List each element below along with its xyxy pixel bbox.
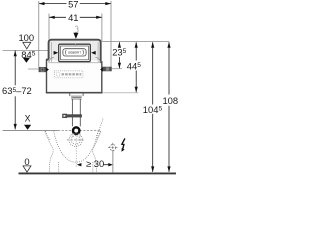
right supply extension line bbox=[112, 68, 123, 70]
svg-text:X: X bbox=[25, 114, 31, 124]
svg-text:100: 100 bbox=[18, 32, 34, 43]
left supply stub line bbox=[28, 68, 39, 70]
fill hose arc left bbox=[49, 57, 54, 62]
svg-text:0: 0 bbox=[24, 156, 29, 167]
dimension 23.5 bbox=[118, 42, 120, 47]
flange rings bbox=[71, 96, 82, 99]
right water supply fitting bbox=[103, 67, 112, 71]
actuation glyph above cistern bbox=[75, 26, 78, 32]
floor line bbox=[19, 172, 177, 174]
svg-text:GEBERIT: GEBERIT bbox=[68, 51, 81, 55]
svg-text:108: 108 bbox=[162, 95, 178, 106]
top extension line right bbox=[102, 41, 169, 43]
dimension 41 arrows bbox=[49, 16, 55, 19]
extension line left of 41 bbox=[48, 14, 50, 40]
left water supply fitting bbox=[39, 67, 46, 72]
open level triangle 0 bbox=[23, 166, 31, 172]
1 m reference line bbox=[3, 49, 49, 51]
lifting knob bbox=[75, 44, 77, 47]
filled level triangle 84.5 bbox=[23, 58, 30, 63]
pedestal right bbox=[92, 162, 94, 172]
pan left contour bbox=[46, 131, 54, 173]
svg-text:57: 57 bbox=[68, 0, 78, 9]
wall line right of pan bbox=[112, 151, 114, 173]
seat hinge ear right bbox=[95, 132, 101, 140]
dimension 57 arrows bbox=[39, 2, 45, 5]
pipe stub into pan right bbox=[79, 133, 81, 137]
window left arrow bbox=[54, 51, 59, 55]
flush pipe bbox=[72, 99, 80, 126]
connection circle outer bbox=[69, 133, 82, 146]
cistern upper outline bbox=[49, 40, 101, 63]
level line X bbox=[3, 129, 59, 131]
pan bowl curve bbox=[54, 131, 98, 162]
type label dotted rect bbox=[55, 71, 83, 78]
left fitting arrow bbox=[46, 67, 49, 71]
cistern lower body fill bbox=[46, 60, 102, 92]
open level triangle 100 bbox=[23, 42, 31, 49]
left dimension line 63.5-72 bbox=[14, 51, 16, 86]
dimension >=30 bbox=[77, 163, 82, 166]
right step block bbox=[101, 61, 103, 63]
dimension 57 line bbox=[39, 3, 111, 5]
filled level triangle X bbox=[24, 125, 31, 130]
svg-text:635–72: 635–72 bbox=[2, 85, 32, 96]
bottom extension line right bbox=[103, 92, 138, 94]
WC pan dotted outline bbox=[45, 119, 103, 173]
window right arrow bbox=[91, 51, 96, 55]
arrow pointing to service opening bbox=[73, 33, 78, 39]
cistern upper body fill bbox=[49, 39, 101, 63]
water connection symbol bbox=[108, 143, 118, 153]
extension line right of 57 bbox=[110, 1, 112, 67]
label inner square bbox=[57, 73, 60, 77]
pipe centerline below bbox=[75, 135, 77, 168]
seat hinge ear left bbox=[45, 132, 51, 140]
pipe connector ring bbox=[73, 127, 79, 133]
connection crosshair bbox=[67, 139, 85, 141]
right fitting arrow bbox=[100, 67, 103, 71]
extension line left of 57 bbox=[38, 1, 40, 67]
plate left curl bbox=[64, 50, 67, 55]
dimension 44.5 bbox=[135, 42, 137, 60]
right lower edge bbox=[101, 62, 103, 93]
inner wall lines bbox=[50, 42, 52, 62]
label dotted text bbox=[62, 73, 82, 75]
left lower edge bbox=[46, 59, 48, 93]
cistern bottom edge bbox=[46, 92, 103, 94]
plate right curl bbox=[82, 50, 85, 55]
pan right contour bbox=[93, 131, 101, 173]
pipe clamp box bbox=[62, 114, 67, 118]
pipe stub into pan left bbox=[71, 133, 73, 137]
electrical connection symbol bbox=[122, 138, 125, 149]
service opening outer frame bbox=[59, 44, 91, 61]
svg-text:≥ 30: ≥ 30 bbox=[86, 158, 104, 169]
extension line right of 41 bbox=[101, 14, 103, 42]
service opening inner frame bbox=[61, 46, 89, 60]
left step block bbox=[46, 59, 49, 61]
pipe clamp band bbox=[67, 114, 82, 117]
protection plate bbox=[63, 49, 86, 56]
dimension 41 line bbox=[49, 16, 102, 18]
dimension 108 bbox=[168, 42, 170, 94]
dimension 104.5 bbox=[152, 42, 154, 104]
svg-text:41: 41 bbox=[68, 12, 78, 23]
shoulder line bbox=[49, 62, 100, 64]
pedestal left bbox=[58, 162, 60, 172]
fill hose arc right bbox=[96, 57, 101, 62]
outlet socket bbox=[70, 93, 83, 96]
pan rear curve bbox=[97, 119, 104, 137]
connection circle inner bbox=[71, 136, 80, 145]
